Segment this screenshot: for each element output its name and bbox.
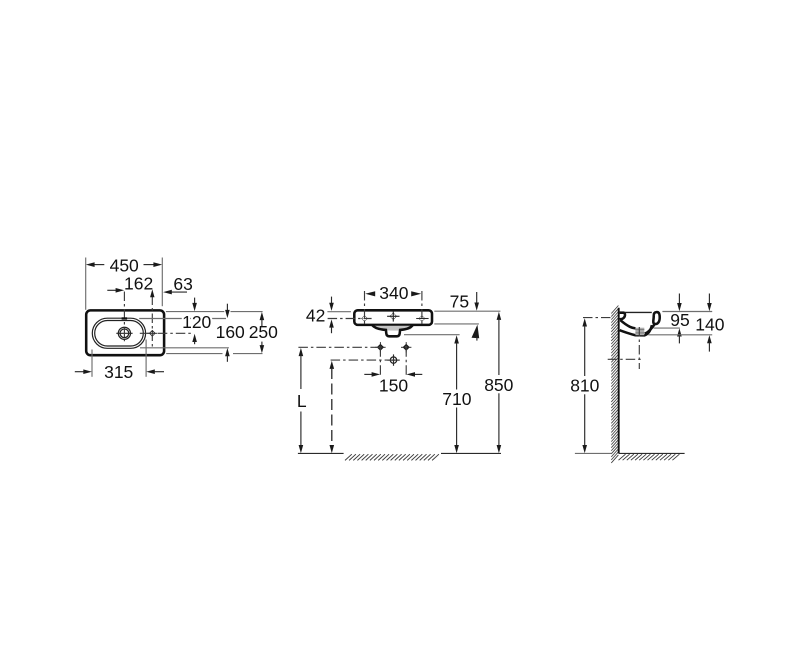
reference line: rim bottom extended right [166,353,222,355]
bold tick where centre line crosses bowl top edge [122,317,128,319]
tap hole outer circle [118,327,130,339]
svg-text:42: 42 [306,306,325,326]
front view floor line [298,452,344,454]
rim fixing hole left [361,315,368,322]
basin profile: bowl front wall [645,324,655,334]
fixing hole centre line left of wall [583,317,611,319]
rim centre hole [390,313,397,320]
svg-text:710: 710 [442,389,471,409]
basin plan outer rim rectangle [86,310,164,355]
dimension 95 [662,311,712,313]
fixing hole drop lines [379,347,381,377]
basin profile: bottom shell [620,325,652,335]
rim bar [354,310,432,325]
side view floor line [619,452,685,454]
dimension 160 [226,304,228,311]
centre line through wall fixing holes [298,346,384,348]
svg-text:63: 63 [173,274,192,294]
dimension 850 [497,312,502,320]
wall hatching [611,306,618,463]
reference line: rim top extended right [166,311,224,313]
front view floor hatching [345,454,439,460]
svg-text:160: 160 [216,322,245,342]
centre lines through rim holes [364,291,366,325]
wall fixing hole right [403,344,410,351]
svg-text:162: 162 [124,274,153,294]
drain outlet hole [390,357,396,363]
horizontal centre line through holes (dash-dot) [140,332,193,334]
secondary hole vertical centre line with up arrow end [151,296,153,348]
svg-text:450: 450 [110,255,139,275]
reference line: bowl top extended right [139,318,226,320]
wall face line [618,308,620,454]
bowl underside outline with drain stub [372,325,412,336]
svg-text:810: 810 [570,376,599,396]
side view floor hatching [619,454,680,460]
dimension 340 [365,291,375,296]
secondary hole symbol [149,330,156,337]
svg-text:140: 140 [695,315,724,335]
dimension 120 [194,298,196,304]
drain height line (dashed) [330,361,335,369]
reference line: bowl bottom extended right [140,347,229,349]
centre line through drain hole [331,359,400,361]
drain trap box (grey) [635,328,644,336]
svg-text:315: 315 [104,362,133,382]
dimension L [299,348,304,356]
bowl inner stadium outline [95,321,144,347]
dimension 315 [91,350,93,377]
svg-text:L: L [297,391,307,411]
tap hole vertical centre line (dash-dot) [123,292,125,342]
svg-text:340: 340 [379,283,408,303]
drain bottom reference line [404,334,460,336]
svg-text:150: 150 [379,376,408,396]
dimension 150 [364,373,372,375]
dimension 140 [648,334,712,336]
rim fixing hole right [419,315,426,322]
svg-text:75: 75 [450,291,469,311]
svg-text:95: 95 [670,310,689,330]
basin profile: top rim edge line [625,311,652,313]
dimension 810 [582,318,587,326]
tap hole horizontal cross line [116,332,132,334]
drain centre horizontal line [608,358,644,360]
dimension 450 [85,258,87,310]
basin profile: back mounting hook [620,313,625,320]
wall fixing hole left [377,344,384,351]
bowl outer stadium outline [92,318,145,348]
svg-text:850: 850 [484,375,513,395]
basin profile: bowl back wall [620,320,635,328]
tap hole inner circle [120,329,129,338]
svg-text:120: 120 [182,312,211,332]
svg-text:250: 250 [249,322,278,342]
dimension 250 [260,312,265,320]
basin profile: front rim loop [653,312,659,324]
dimension 710 [454,335,459,343]
drain centre vertical line [638,327,640,369]
810 bottom reference line [575,452,612,454]
bowl back visible band (grey) [374,326,413,331]
